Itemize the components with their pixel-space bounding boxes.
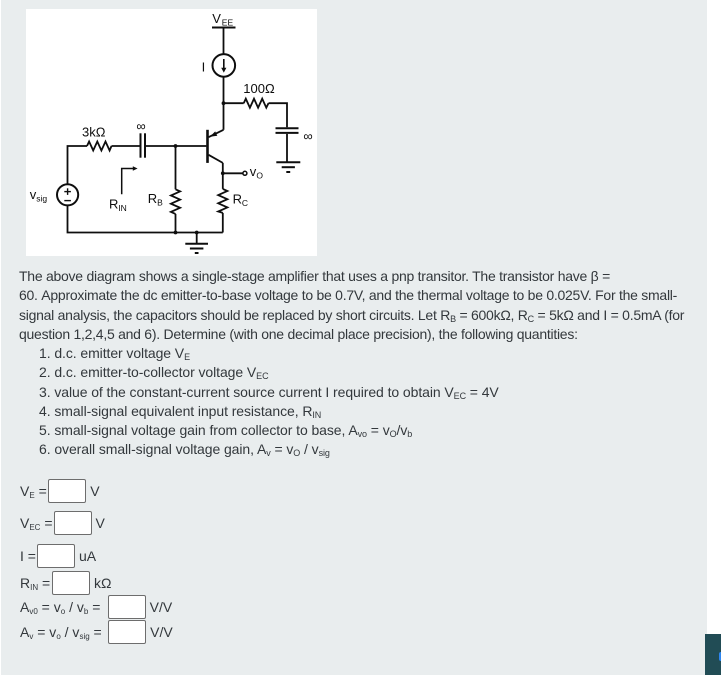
wire current source to node A [223, 77, 225, 104]
resistor 100ohm [244, 99, 269, 108]
ground G1 stub [196, 233, 198, 244]
label RIN [109, 197, 127, 213]
wire collector down to node vo [222, 163, 224, 173]
svg-text:I: I [202, 60, 206, 75]
svg-text:∞: ∞ [303, 129, 312, 144]
label RC [233, 191, 248, 207]
svg-text:V: V [212, 11, 221, 26]
wire VEE to current source [223, 29, 225, 55]
svg-text:100Ω: 100Ω [243, 81, 275, 96]
bottom rail wire [68, 205, 223, 232]
svg-text:∞: ∞ [136, 119, 145, 134]
svg-text:R: R [109, 197, 118, 212]
wire capacitor C1 to node B [146, 145, 176, 147]
capacitor C1 (coupling, infinite) [141, 133, 146, 157]
svg-text:O: O [256, 170, 263, 180]
wire node B to resistor RB [175, 146, 177, 189]
source vsig [57, 184, 78, 205]
svg-text:EE: EE [222, 18, 234, 28]
label RB [148, 191, 163, 207]
label vo [250, 164, 264, 180]
wire node A to 100ohm resistor [224, 102, 244, 104]
wire vsig to 3k resistor [68, 146, 88, 184]
svg-text:B: B [157, 197, 163, 207]
transistor Q1 pnp: emitter lead [209, 130, 224, 137]
ground G2 [276, 162, 300, 172]
capacitor C2 (bypass, infinite) [276, 128, 299, 133]
resistor 3k [87, 142, 112, 151]
supply VEE bar [212, 27, 236, 29]
wire RB to bottom rail [175, 214, 177, 233]
node RB-rail junction dot [174, 231, 178, 235]
wire node B to transistor base [176, 145, 207, 147]
output terminal circle [243, 171, 247, 175]
vsig plus sign [64, 188, 71, 195]
wire 3k to capacitor C1 [112, 145, 140, 147]
RIN arrow [122, 166, 138, 194]
wire capacitor C2 to ground [286, 134, 288, 162]
vsig minus sign [64, 200, 71, 202]
resistor RB [171, 189, 180, 214]
svg-text:sig: sig [36, 194, 47, 204]
transistor Q1 base bar [206, 130, 209, 163]
svg-text:IN: IN [118, 203, 127, 213]
wire RC to bottom rail [222, 213, 224, 233]
svg-text:C: C [242, 198, 248, 208]
node vo junction dot [221, 171, 225, 175]
transistor Q1 emitter arrow (pnp, points toward base bar) [210, 131, 217, 136]
svg-text:R: R [233, 191, 242, 206]
resistor RC [218, 189, 227, 213]
node B junction dot (base node) [174, 144, 178, 148]
svg-text:R: R [148, 191, 157, 206]
wire node A to transistor emitter [223, 103, 225, 130]
supply VEE label [212, 11, 233, 27]
node A junction dot (emitter node) [222, 101, 226, 105]
label vsig [30, 187, 48, 203]
ground G1 [185, 244, 208, 253]
wire 100ohm to capacitor C2 [269, 103, 288, 127]
ground junction dot [195, 231, 199, 235]
wire node vo to resistor RC [222, 173, 224, 189]
wire node vo to output terminal [223, 172, 243, 174]
svg-text:3kΩ: 3kΩ [82, 124, 106, 139]
current source I [213, 54, 236, 77]
transistor Q1 collector lead [209, 155, 223, 163]
